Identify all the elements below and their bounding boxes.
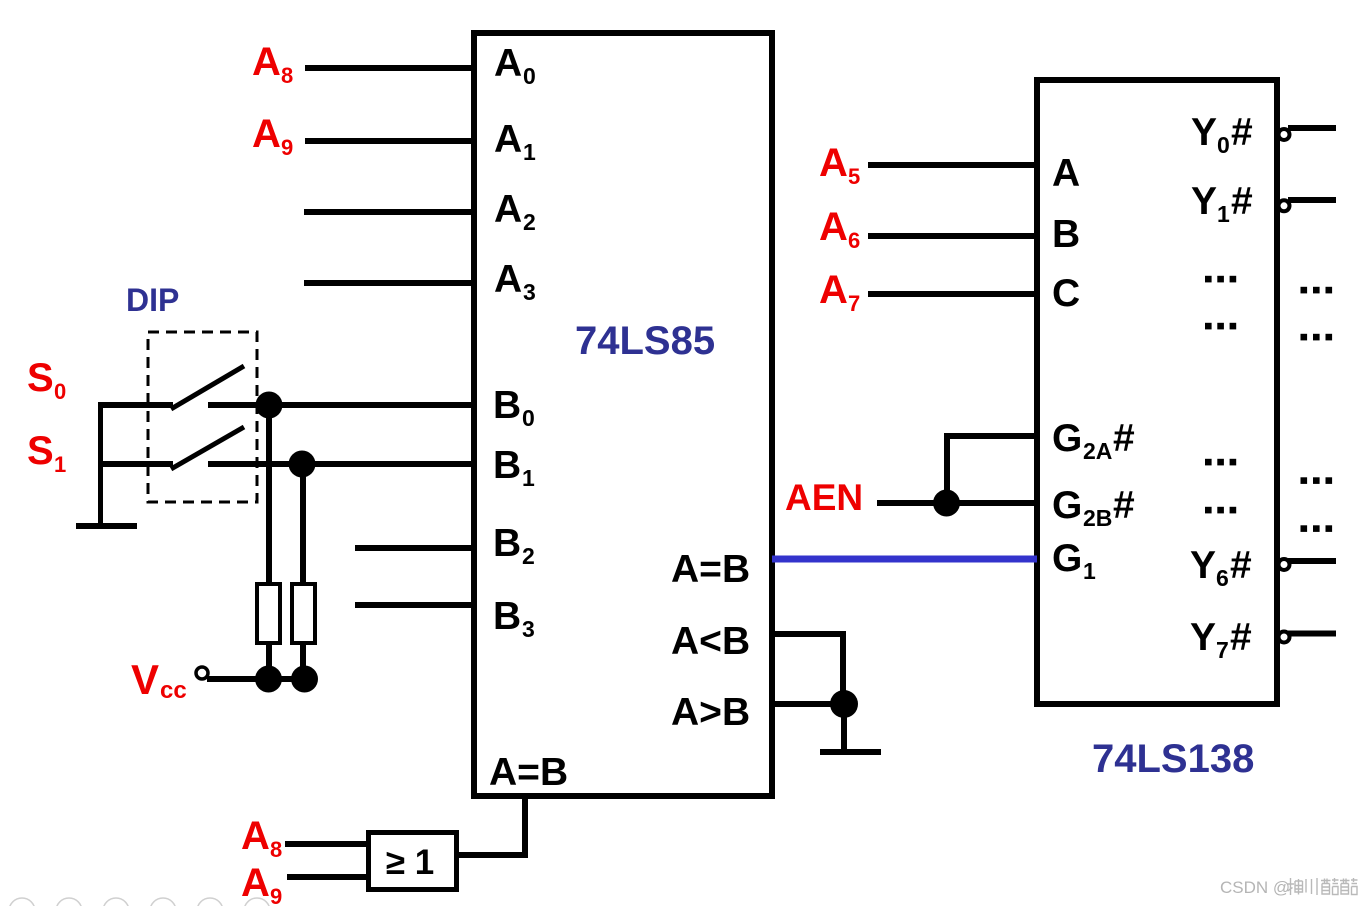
ellipsis inside row4 xyxy=(1205,507,1236,514)
wire A7 to C xyxy=(868,291,1037,297)
wire Vcc feed xyxy=(207,676,305,682)
svg-text:2A: 2A xyxy=(1083,438,1112,464)
ellipsis outside row4 xyxy=(1301,525,1333,532)
net label A5 xyxy=(819,141,860,189)
junction Vcc-R2 xyxy=(291,666,318,693)
wire A6 to B xyxy=(868,233,1037,239)
net label Vcc xyxy=(131,656,187,704)
watermark CJK glyphs xyxy=(1287,878,1358,895)
pin Y7# xyxy=(1190,616,1252,663)
svg-text:G: G xyxy=(1052,417,1082,460)
pin Y0# bubble xyxy=(1279,129,1290,140)
wire stub B3 xyxy=(355,602,471,608)
pin Y1# bubble xyxy=(1279,200,1290,211)
svg-text:74LS85: 74LS85 xyxy=(575,319,715,363)
net label S0 xyxy=(27,356,66,404)
svg-text:G: G xyxy=(1052,537,1082,580)
switch SW2 blade xyxy=(171,427,244,469)
svg-text:1: 1 xyxy=(523,139,536,165)
svg-text:1: 1 xyxy=(522,465,535,491)
svg-text:A=B: A=B xyxy=(489,751,568,794)
ground symbol right xyxy=(820,749,881,755)
svg-text:A: A xyxy=(819,205,848,249)
wire G2A# horizontal xyxy=(944,433,1037,439)
svg-text:0: 0 xyxy=(54,379,66,404)
net label A8 (top) xyxy=(252,40,293,88)
wire S1 left segment xyxy=(98,461,173,467)
svg-text:1: 1 xyxy=(1083,558,1096,584)
svg-text:#: # xyxy=(1113,417,1135,460)
ellipsis Y2-Y5 inside row2 xyxy=(1205,323,1236,330)
svg-text:B: B xyxy=(1052,213,1080,256)
wire Y6# output xyxy=(1288,558,1336,564)
resistor R2 xyxy=(292,584,315,643)
svg-text:1: 1 xyxy=(1217,201,1230,227)
svg-text:#: # xyxy=(1113,484,1135,527)
svg-text:V: V xyxy=(131,656,159,703)
wire A=B bottom pin vertical xyxy=(522,796,528,855)
net label A6 xyxy=(819,205,860,253)
wire A8 to A0 xyxy=(305,65,471,71)
ellipsis Y2-Y5 inside row1 xyxy=(1205,276,1236,283)
ellipsis outputs outside row2 xyxy=(1301,334,1333,341)
net label A8 (bottom) xyxy=(241,814,282,862)
wire Y1# output xyxy=(1288,197,1336,203)
svg-text:AEN: AEN xyxy=(785,477,863,518)
svg-text:≥ 1: ≥ 1 xyxy=(386,843,434,882)
svg-text:#: # xyxy=(1231,180,1253,223)
svg-text:2: 2 xyxy=(523,209,536,235)
wire pull-up right vertical xyxy=(300,464,306,584)
junction Vcc-R1 xyxy=(255,666,282,693)
svg-text:A: A xyxy=(494,188,522,231)
wire AEN to G2B# xyxy=(877,500,1037,506)
svg-text:C: C xyxy=(1052,272,1080,315)
pin B0 xyxy=(493,384,535,431)
wire B1 net xyxy=(208,461,471,467)
wire R1 bottom xyxy=(266,643,272,679)
svg-text:A: A xyxy=(494,258,522,301)
svg-text:0: 0 xyxy=(523,63,536,89)
svg-text:3: 3 xyxy=(522,616,535,642)
wire OR gate output xyxy=(459,852,528,858)
wire A<B horizontal xyxy=(772,631,845,637)
junction B1 xyxy=(289,451,316,478)
svg-text:7: 7 xyxy=(848,291,860,316)
svg-text:#: # xyxy=(1230,544,1252,587)
pin Y6# xyxy=(1190,544,1252,591)
wire A<B to A>B vertical xyxy=(840,631,846,704)
svg-text:cc: cc xyxy=(160,677,187,704)
svg-text:2: 2 xyxy=(522,543,535,569)
svg-text:Y: Y xyxy=(1190,616,1216,659)
svg-text:B: B xyxy=(493,595,521,638)
Vcc terminal circle xyxy=(196,667,208,679)
svg-text:0: 0 xyxy=(522,405,535,431)
svg-text:S: S xyxy=(27,429,54,473)
pin A0 xyxy=(494,42,536,89)
ellipsis outside row3 xyxy=(1301,477,1333,484)
svg-text:5: 5 xyxy=(848,164,860,189)
svg-text:A=B: A=B xyxy=(671,548,750,591)
svg-text:1: 1 xyxy=(54,452,66,477)
svg-text:9: 9 xyxy=(281,135,293,160)
wire to A3 xyxy=(304,280,471,286)
svg-text:A: A xyxy=(819,268,848,312)
pin Y0# xyxy=(1191,111,1253,158)
svg-text:6: 6 xyxy=(1216,565,1229,591)
OR gate U3 body xyxy=(369,833,457,890)
svg-text:8: 8 xyxy=(270,837,282,862)
pin Y1# xyxy=(1191,180,1253,227)
svg-text:A: A xyxy=(252,40,281,84)
wire A=B to G1 (blue net) xyxy=(772,556,1037,563)
wire R2 bottom xyxy=(300,643,306,679)
pin A2 xyxy=(494,188,536,235)
DIP package dashed outline xyxy=(148,332,257,502)
svg-text:A: A xyxy=(819,141,848,185)
resistor R1 xyxy=(257,584,280,643)
wire G2A#-G2B# vertical xyxy=(944,433,950,503)
svg-text:S: S xyxy=(27,356,54,400)
svg-text:#: # xyxy=(1231,111,1253,154)
decorative scallop circles bottom-left xyxy=(9,898,270,906)
ellipsis inside row3 xyxy=(1205,459,1236,466)
svg-text:A: A xyxy=(252,112,281,156)
svg-text:G: G xyxy=(1052,484,1082,527)
pin B3 xyxy=(493,595,535,642)
svg-text:Y: Y xyxy=(1191,180,1217,223)
svg-text:Y: Y xyxy=(1190,544,1216,587)
pin G2B# xyxy=(1052,484,1135,531)
wire to ground right xyxy=(841,704,847,749)
net label S1 xyxy=(27,429,66,477)
wire vertical S0-S1-ground xyxy=(98,402,103,524)
svg-text:3: 3 xyxy=(523,279,536,305)
wire pull-up left vertical xyxy=(266,405,272,584)
svg-text:CSDN @: CSDN @ xyxy=(1220,878,1290,897)
wire A9 to A1 xyxy=(305,138,471,144)
svg-text:A>B: A>B xyxy=(671,691,750,734)
net label A7 xyxy=(819,268,860,316)
pin Y7# bubble xyxy=(1279,632,1290,643)
svg-text:A: A xyxy=(494,118,522,161)
svg-text:B: B xyxy=(493,384,521,427)
wire S0 left segment xyxy=(98,402,173,408)
wire A9 to OR input xyxy=(287,874,366,880)
wire Y7# output xyxy=(1288,631,1336,637)
svg-text:0: 0 xyxy=(1217,132,1230,158)
svg-text:A<B: A<B xyxy=(671,620,750,663)
svg-text:8: 8 xyxy=(281,63,293,88)
wire B0 net xyxy=(208,402,471,408)
pin B2 xyxy=(493,522,535,569)
svg-text:B: B xyxy=(493,444,521,487)
svg-text:A: A xyxy=(494,42,522,85)
switch SW1 blade xyxy=(171,366,244,409)
wire A8 to OR input xyxy=(285,841,366,847)
pin A1 xyxy=(494,118,536,165)
svg-text:Y: Y xyxy=(1191,111,1217,154)
wire stub B2 xyxy=(355,545,471,551)
svg-text:B: B xyxy=(493,522,521,565)
svg-text:7: 7 xyxy=(1216,637,1229,663)
comparator U1 74LS85 body xyxy=(474,33,772,796)
decoder U2 74LS138 body xyxy=(1037,80,1277,704)
wire to A2 xyxy=(304,209,471,215)
wire A5 to A xyxy=(868,162,1037,168)
pin G2A# xyxy=(1052,417,1135,464)
wire A>B horizontal xyxy=(772,701,843,707)
pin B1 xyxy=(493,444,535,491)
svg-text:2B: 2B xyxy=(1083,505,1112,531)
net label A9 (bottom) xyxy=(241,861,282,906)
junction A<B/A>B xyxy=(830,690,858,718)
svg-text:#: # xyxy=(1230,616,1252,659)
net label A9 (top) xyxy=(252,112,293,160)
pin G1 xyxy=(1052,537,1096,584)
svg-text:74LS138: 74LS138 xyxy=(1092,737,1254,781)
svg-text:9: 9 xyxy=(270,884,282,906)
ellipsis outputs outside row1 xyxy=(1301,287,1333,294)
pin Y6# bubble xyxy=(1279,559,1290,570)
svg-text:A: A xyxy=(1052,152,1080,195)
junction AEN xyxy=(933,490,960,517)
wire Y0# output xyxy=(1288,125,1336,131)
junction B0 xyxy=(256,392,283,419)
svg-text:DIP: DIP xyxy=(126,282,179,318)
pin A3 xyxy=(494,258,536,305)
ground symbol left xyxy=(76,523,137,529)
svg-text:A: A xyxy=(241,814,270,858)
svg-text:6: 6 xyxy=(848,228,860,253)
